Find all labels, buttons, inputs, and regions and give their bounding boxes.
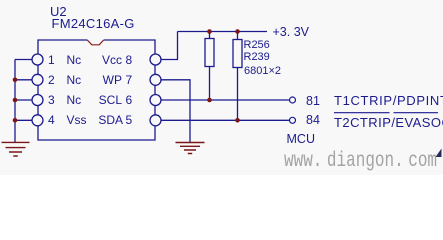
pin 6 number xyxy=(126,93,133,107)
pin 84 number xyxy=(306,113,320,127)
pin 7 circle xyxy=(150,74,161,85)
net T2CTRIP/EVASOC xyxy=(334,116,443,130)
wire pin1 stub xyxy=(15,59,32,61)
node +3.3V label xyxy=(273,25,310,39)
pin 2 number xyxy=(48,73,55,87)
pin 5 number xyxy=(126,113,133,127)
pin 1 circle xyxy=(32,54,43,65)
wire pin2 stub xyxy=(15,79,32,81)
watermark cursor triangle xyxy=(436,149,442,158)
wire pin8 to rail xyxy=(161,32,178,60)
pin 4 number xyxy=(48,113,55,127)
resistor R239 label xyxy=(244,51,270,63)
junction node pin4 bus xyxy=(13,118,18,123)
resistor R239 xyxy=(237,32,239,121)
pin 3 number xyxy=(48,93,55,107)
pin 2 circle xyxy=(32,74,43,85)
pin 81 number xyxy=(306,94,320,108)
junction node pin2 bus xyxy=(13,78,18,83)
terminal 84 circle xyxy=(290,117,296,123)
pin 1 number xyxy=(48,53,55,67)
pin 3 circle xyxy=(32,95,43,106)
terminal 81 circle xyxy=(290,97,296,103)
net T1CTRIP/PDPINTA xyxy=(334,94,443,108)
pin 6 name SCL xyxy=(82,93,122,107)
value label 6801x2 xyxy=(244,65,281,77)
pin 5 circle xyxy=(150,115,161,126)
junction node R239 bottom SDA xyxy=(235,118,240,123)
pin 6 circle xyxy=(150,95,161,106)
pin 8 name Vcc xyxy=(82,53,122,67)
notch xyxy=(87,40,103,45)
pin 8 number xyxy=(126,53,133,67)
node U2 label xyxy=(50,5,67,19)
ground left xyxy=(2,142,30,156)
pin 1 name Nc xyxy=(67,53,82,67)
pin 2 name Nc xyxy=(67,73,82,87)
resistor R256 xyxy=(209,32,211,101)
IC U2 FM24C16A-G body xyxy=(38,40,155,140)
pin 4 circle xyxy=(32,115,43,126)
junction node R256 bottom SCL xyxy=(207,98,212,103)
node MCU label xyxy=(287,132,315,146)
pin 5 name SDA xyxy=(82,113,123,127)
node FM24C16A-G label xyxy=(52,17,135,31)
ground middle xyxy=(176,143,205,154)
watermark www.diangon.com xyxy=(284,150,437,173)
wire pin4 stub xyxy=(15,119,32,121)
pin 4 name Vss xyxy=(67,113,87,127)
overline T2CTRIP xyxy=(334,112,438,114)
wire SDA net xyxy=(161,119,290,121)
pin 7 name WP xyxy=(82,73,122,87)
junction node pin3 bus xyxy=(13,98,18,103)
junction node R239 top xyxy=(235,29,240,34)
wire pin7 WP to ground xyxy=(161,80,190,142)
wire pin3 stub xyxy=(15,99,32,101)
resistor R256 label xyxy=(244,39,270,51)
pin 7 number xyxy=(126,73,133,87)
pin 3 name Nc xyxy=(67,93,82,107)
wire SCL net xyxy=(161,99,290,101)
junction node R256 top xyxy=(207,29,212,34)
wire left bus xyxy=(14,60,16,143)
pin 8 circle xyxy=(150,54,161,65)
wire +3.3V rail xyxy=(178,31,268,33)
